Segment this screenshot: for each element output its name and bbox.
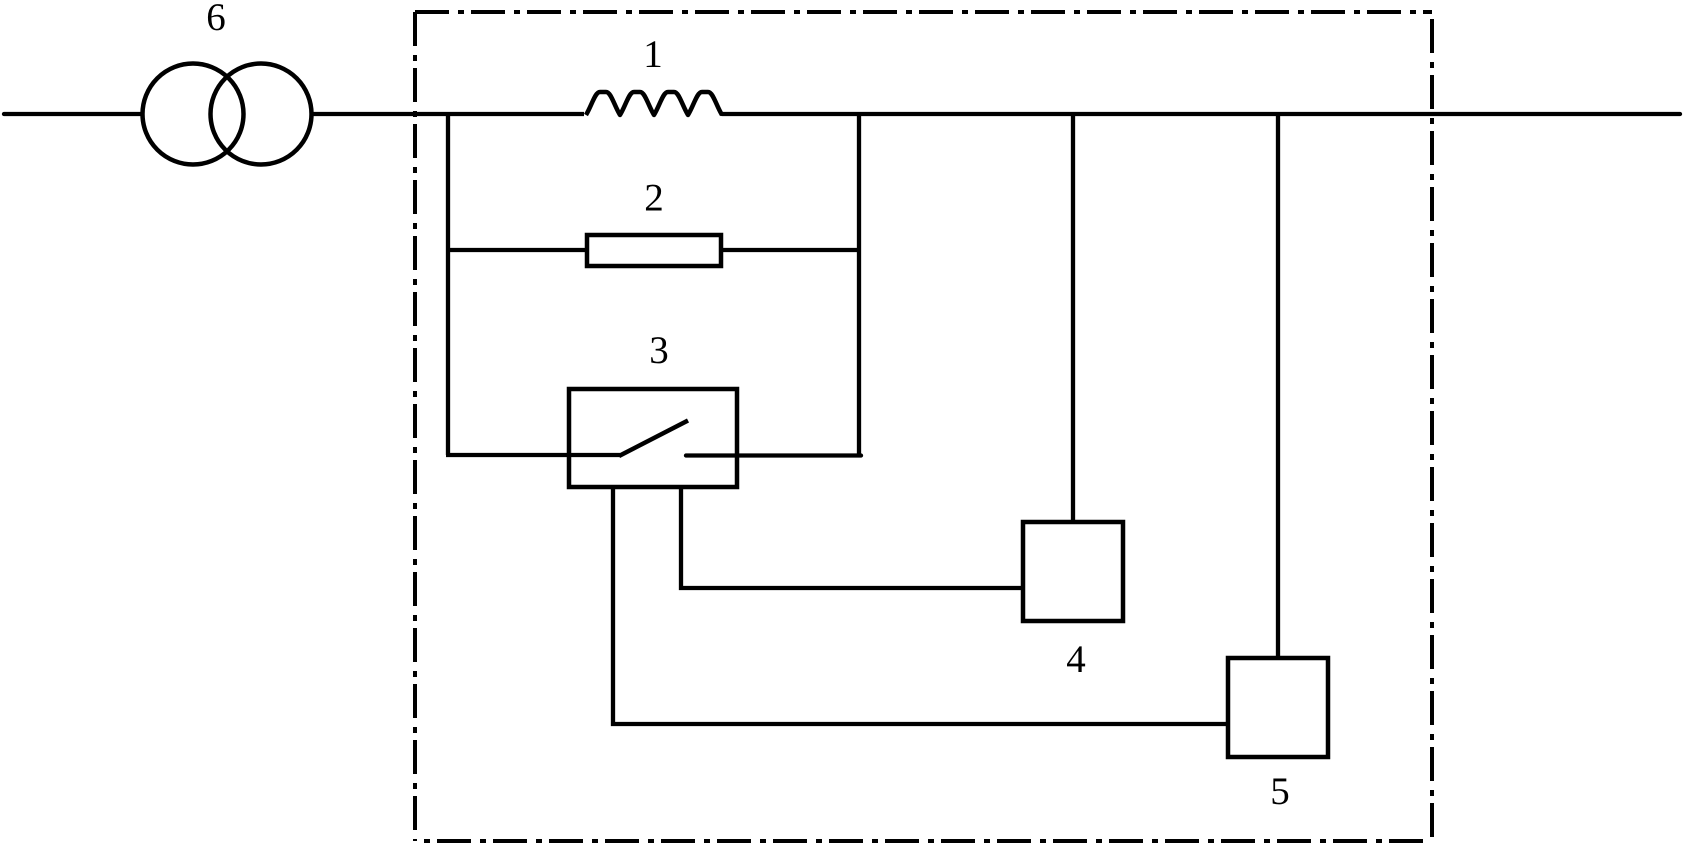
label 2 — [646, 185, 662, 211]
block 4 — [1023, 522, 1123, 621]
wire: resistor branch left lead — [446, 248, 586, 252]
wire: box3 to block4 control line — [681, 489, 1023, 588]
wire: incoming line left of transformer — [4, 112, 142, 116]
wire: box3 to block5 control line — [613, 489, 1228, 724]
enclosure dash-dot border top — [415, 10, 1432, 14]
block 5 — [1228, 658, 1328, 757]
switch box 3 — [569, 389, 737, 487]
wire: right branch vertical — [857, 112, 861, 455]
wire: switch branch left lead — [446, 453, 620, 457]
wire: resistor branch right lead — [723, 248, 861, 252]
label 6 — [208, 4, 225, 30]
label 4 — [1067, 646, 1085, 672]
resistor 2 — [587, 235, 721, 266]
wire: bus to block4 vertical — [1071, 114, 1075, 522]
wire: left branch vertical — [446, 112, 450, 455]
label 3 — [651, 337, 667, 363]
inductor 1 — [586, 92, 722, 115]
wire: main bus from inductor to right edge — [722, 112, 1680, 116]
transformer 6 secondary circle — [211, 64, 312, 165]
enclosure dash-dot border right — [1430, 12, 1434, 841]
label 5 — [1273, 778, 1289, 804]
wire: switch branch right lead — [686, 453, 861, 457]
wire: transformer to inductor — [311, 112, 584, 116]
transformer 6 primary circle — [143, 64, 244, 165]
switch blade (diagonal contact) — [619, 421, 688, 457]
label 1 — [647, 41, 661, 67]
enclosure dash-dot border bottom — [415, 839, 1432, 843]
enclosure dash-dot border left — [413, 12, 417, 841]
wire: bus to block5 vertical — [1276, 114, 1280, 658]
